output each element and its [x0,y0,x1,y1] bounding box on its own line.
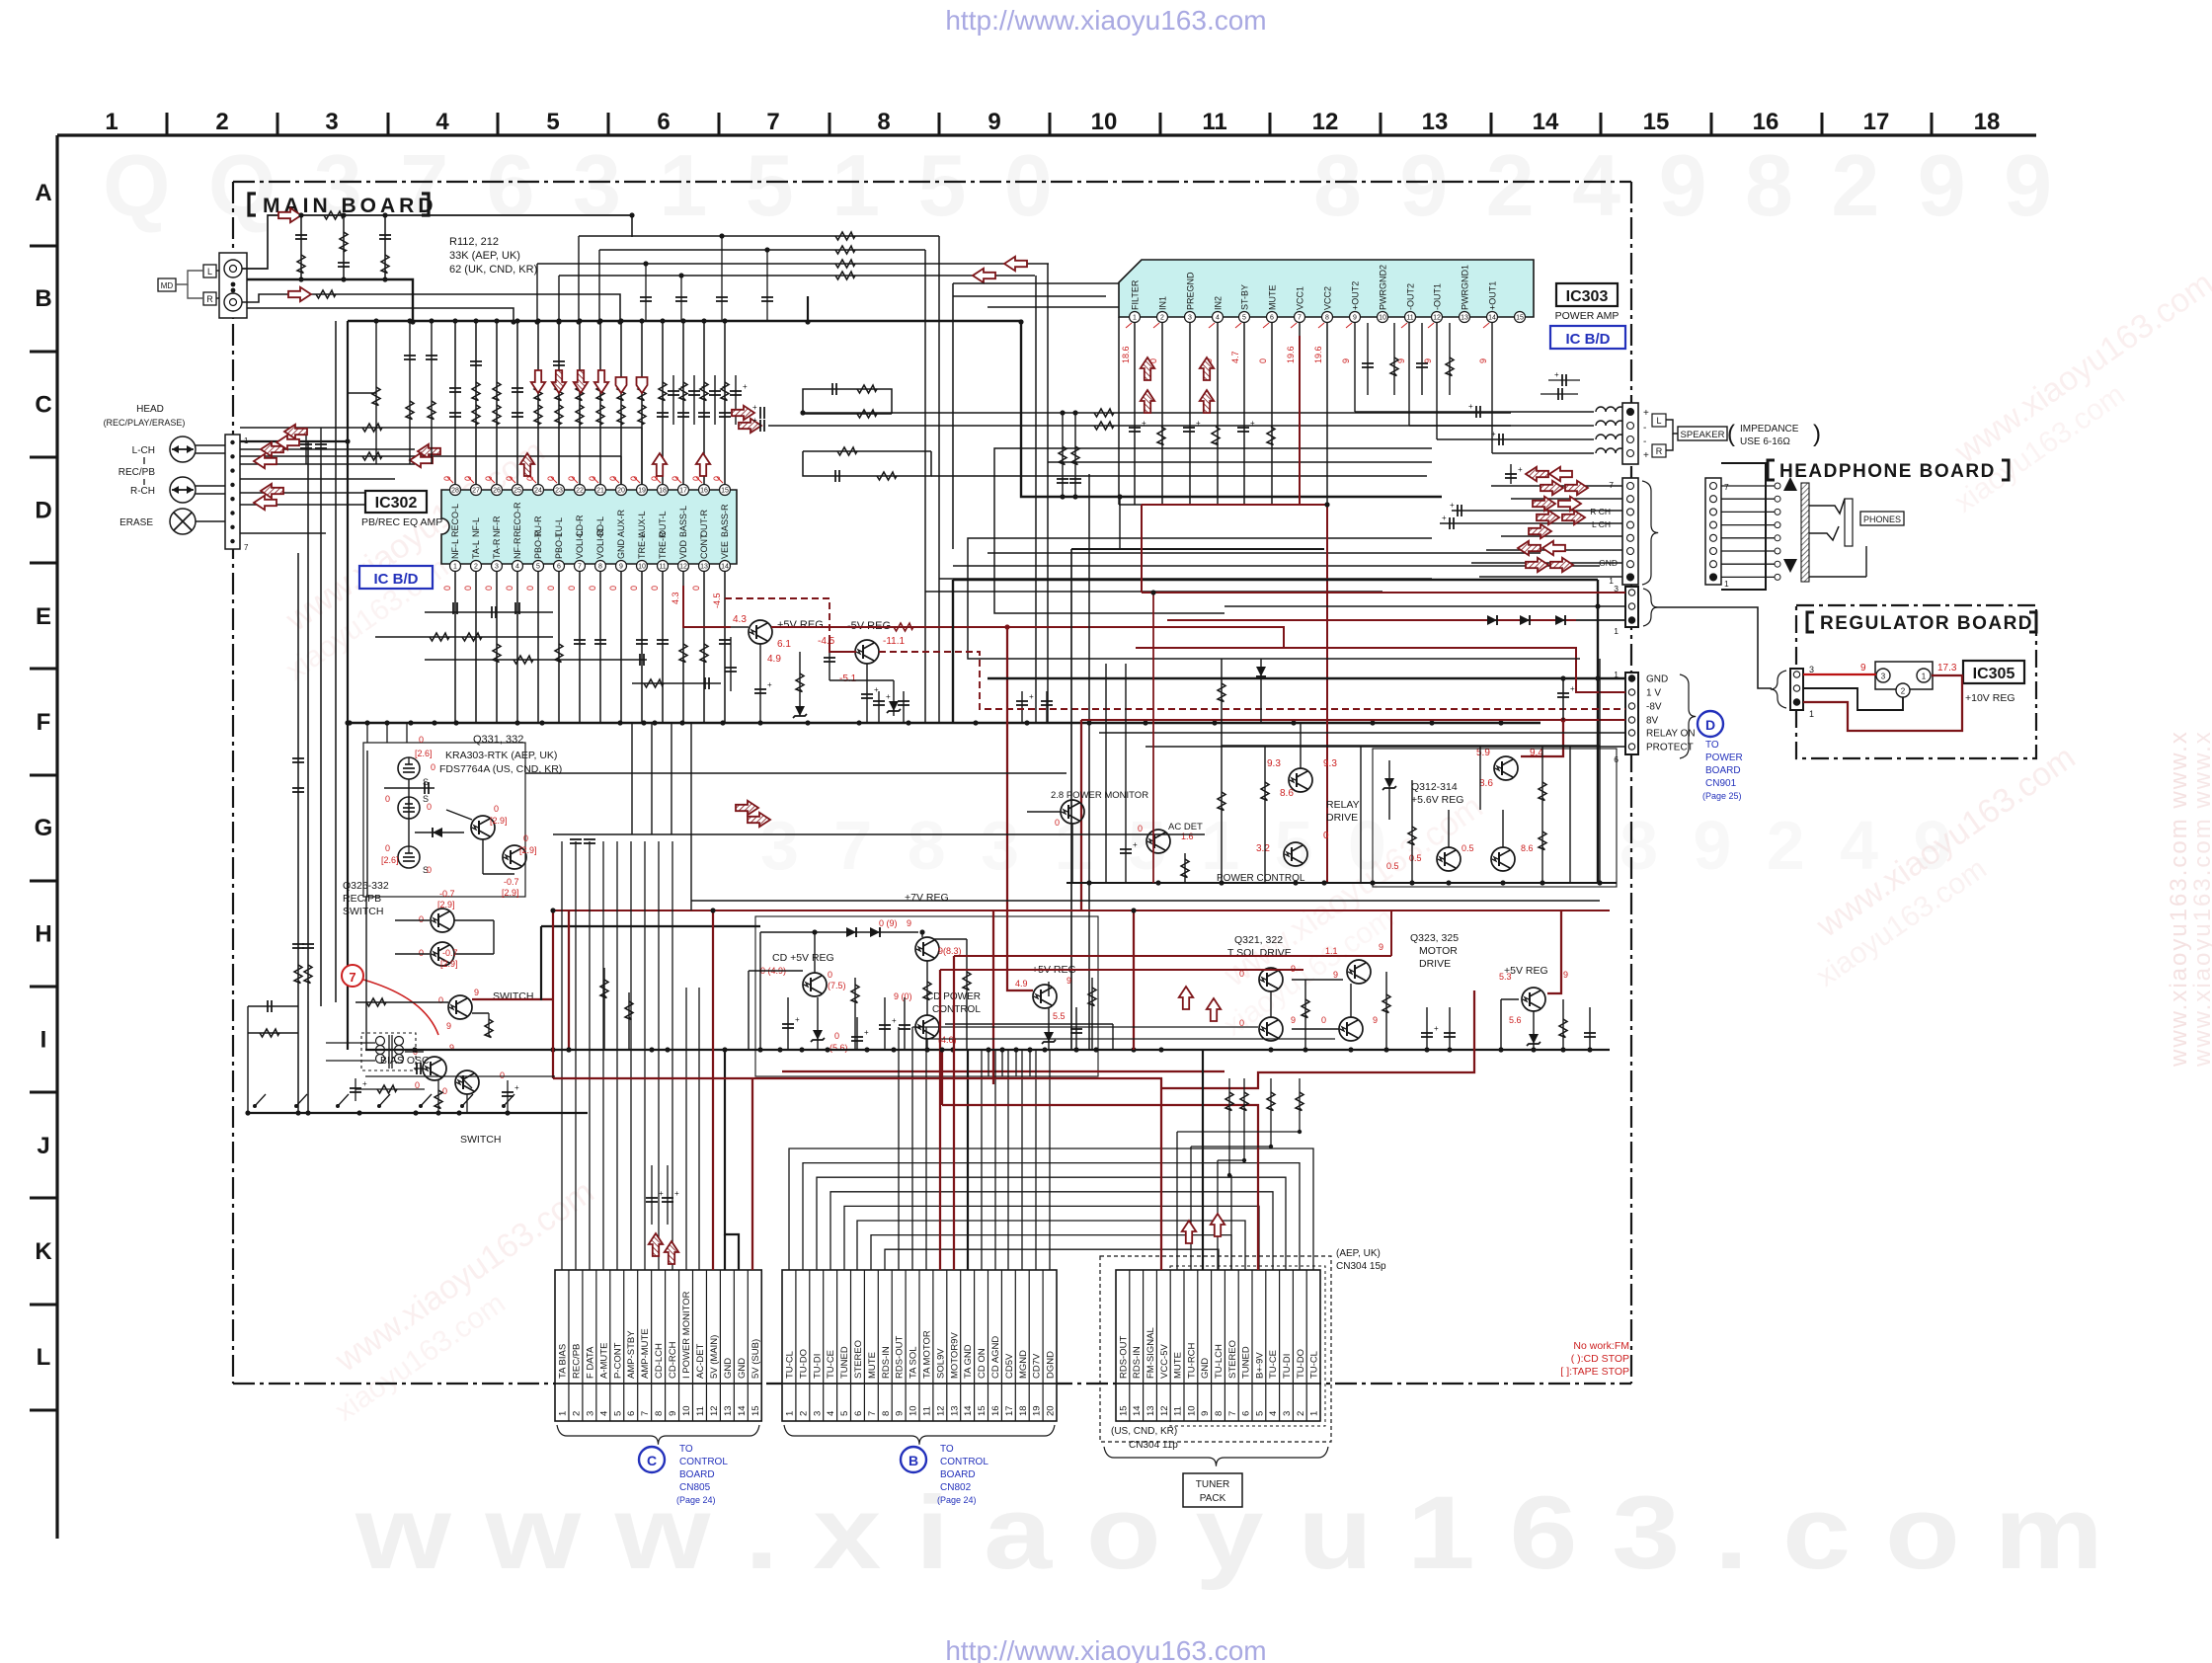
svg-text:C: C [647,1453,657,1468]
caps on c bundle [570,838,582,840]
IC303 pin 7 [1295,312,1305,323]
svg-text:E: E [36,603,51,630]
svg-text:+5V REG: +5V REG [777,619,824,631]
cd 5v transistor [803,973,827,996]
IC302 pin 22 [575,485,586,496]
wires q331 cluster [366,751,368,897]
svg-text:13: 13 [949,1405,960,1416]
caps row plus above pins 18-15 [668,390,679,392]
headphone board inner wires [1721,485,1777,487]
IC302 pin 20 [616,485,627,496]
svg-text:8: 8 [598,564,602,571]
svg-text:IN1: IN1 [1158,296,1168,310]
IC302 pin 1 [450,561,461,572]
svg-text:TU-DI: TU-DI [1282,1354,1293,1379]
svg-text:P-CONT: P-CONT [612,1342,623,1379]
vertical 1103 [1088,549,1090,1050]
svg-text:-4.5: -4.5 [712,593,722,608]
maroon b+9v to tuner [942,1105,1258,1270]
red curve from 7 [363,980,438,1035]
caps on left verticals [292,757,304,759]
pc pair transistors [1437,847,1461,871]
svg-text:9: 9 [1341,358,1351,363]
thick GND into C [725,1050,739,1270]
svg-text:9.3: 9.3 [1267,758,1281,769]
svg-text:4: 4 [1216,315,1220,322]
watermark pink diagonals [255,433,574,687]
svg-text:+OUT2: +OUT2 [1351,281,1361,310]
svg-text:VCC2: VCC2 [1323,286,1333,310]
headphone feed lines [1452,510,1622,512]
svg-text:[2.6]: [2.6] [381,855,399,865]
up arrows above pins 18 16 [653,453,667,476]
svg-text:KRA303-RTK (AEP, UK): KRA303-RTK (AEP, UK) [445,750,557,761]
6pin brace [1680,674,1696,758]
svg-text:(Page 24): (Page 24) [937,1495,977,1505]
main board dash-dot border [233,181,1631,183]
svg-text:9: 9 [1333,970,1338,980]
svg-text:RECO-R: RECO-R [513,502,522,537]
connector CN802 body [782,1270,1057,1421]
svg-text:18: 18 [1018,1405,1029,1416]
svg-text:7: 7 [867,1411,878,1416]
svg-text:I POWER MONITOR: I POWER MONITOR [681,1291,692,1379]
maroon dashed lower route [879,652,1081,709]
svg-text:+10V REG: +10V REG [1965,692,2015,704]
svg-text:TU-CE: TU-CE [1268,1350,1279,1379]
svg-text:10: 10 [681,1405,692,1416]
svg-text:IC B/D: IC B/D [1566,331,1611,348]
svg-text:7: 7 [1609,480,1614,490]
svg-text:3: 3 [1282,1411,1293,1416]
svg-text:19.6: 19.6 [1313,346,1323,363]
mosfet Q332 [398,797,420,819]
center long verticals [620,456,622,485]
svg-text:4: 4 [515,564,519,571]
svg-text:17.3: 17.3 [1937,663,1957,673]
q331 left vertical to bus [365,897,367,1050]
wire ic302 col bottom [537,572,539,723]
svg-text:L-CH: L-CH [132,445,155,456]
wire ic302 col bottom [703,572,705,723]
svg-text:AC-DET: AC-DET [695,1343,706,1379]
svg-text:19: 19 [1032,1405,1043,1416]
brace tuner [1104,1447,1328,1466]
transistor G2 [503,845,526,869]
svg-text:9.4: 9.4 [1530,748,1543,758]
svg-text:8: 8 [1214,1411,1224,1416]
IC302 pin 14 [720,561,731,572]
long bus into bundles [365,1075,555,1077]
svg-text:-OUT1: -OUT1 [1433,283,1443,310]
svg-text:H: H [35,920,51,947]
cd tr2 base resistor [923,982,931,1000]
svg-text:0: 0 [629,586,639,591]
bias transistor 2 [455,1070,479,1094]
svg-text:+: + [767,680,772,689]
up arrow near pin25 [520,453,534,476]
svg-text:12: 12 [1433,315,1441,322]
IC303 pin 6 [1267,312,1278,323]
arrow rca L [278,208,301,222]
arrows speaker feed [732,406,754,420]
svg-text:CN304 11p: CN304 11p [1129,1440,1178,1451]
svg-text:0: 0 [567,586,577,591]
caps above speaker conn [1548,379,1580,381]
arrows below IC303 [1141,357,1154,380]
svg-text:-OUT2: -OUT2 [1406,283,1416,310]
svg-text:6: 6 [626,1411,637,1416]
svg-text:+: + [1518,465,1523,474]
mosfet Q331 [398,757,420,779]
motor support [1270,991,1272,1017]
wire ic302 col top [516,321,518,484]
IC303 pin 5 [1239,312,1250,323]
svg-text:(AEP, UK): (AEP, UK) [1336,1248,1381,1259]
maroon verticals cd [992,911,994,1084]
bundle above C [561,841,563,1270]
svg-text:0: 0 [834,1031,839,1041]
svg-text:3: 3 [1881,673,1886,681]
wire ic302 col top [641,321,643,484]
bias support parts [355,1088,425,1090]
svg-text:9: 9 [1860,663,1866,673]
svg-text:9: 9 [1379,942,1383,952]
svg-text:VOLI-L: VOLI-L [575,530,585,559]
loop1 cap-res [803,389,892,414]
svg-text:DGND: DGND [1046,1351,1057,1379]
svg-text:(5.6): (5.6) [829,1043,848,1053]
svg-text:23: 23 [555,488,563,495]
F row left verticals [366,723,368,743]
resistors on speaker lines [1094,409,1114,417]
svg-text:12: 12 [1159,1405,1170,1416]
svg-text:10: 10 [638,564,646,571]
IC302 pin 15 [720,485,731,496]
svg-text:5: 5 [536,564,540,571]
svg-text:4: 4 [826,1411,836,1416]
svg-text:TA GND: TA GND [963,1344,974,1379]
svg-text:TU-CE: TU-CE [826,1350,836,1379]
svg-text:16: 16 [700,488,708,495]
switch base resistor [355,1001,448,1003]
svg-text:+: + [1434,1024,1439,1033]
svg-text:8: 8 [654,1411,665,1416]
svg-text:6: 6 [1241,1411,1252,1416]
bias cap to base [414,1068,424,1069]
IC302 pin 24 [533,485,544,496]
svg-text:-8V: -8V [1646,702,1662,713]
IC303 body [1119,260,1534,317]
svg-text:(7.5): (7.5) [828,981,846,990]
svg-text:8 9 2 4 9 8 2 9 9: 8 9 2 4 9 8 2 9 9 [1313,136,2059,234]
svg-text:+: + [874,685,879,694]
res-cap columns right [1062,413,1064,497]
svg-text:16: 16 [1753,109,1779,135]
switch transistor [448,995,472,1019]
IC302 body [441,490,737,564]
svg-text:REC/PB: REC/PB [343,893,381,905]
svg-text:A-MUTE: A-MUTE [598,1343,609,1379]
svg-text:+: + [1450,501,1455,510]
svg-text:+: + [722,382,727,391]
svg-text:12: 12 [1312,109,1339,135]
vertical x965 [952,283,954,549]
svg-text:+: + [1196,419,1201,428]
main board title [249,194,256,215]
svg-text:CD7V: CD7V [1032,1353,1043,1379]
svg-text:17: 17 [1863,109,1890,135]
svg-text:0: 0 [1138,824,1143,833]
svg-text:19: 19 [638,488,646,495]
svg-text:D: D [1705,717,1715,733]
svg-text:0: 0 [588,586,597,591]
svg-text:+: + [1643,408,1649,419]
blue D circle [1698,711,1723,737]
svg-text:20: 20 [1046,1405,1057,1416]
resistors on head lines [362,424,382,432]
wire ic302 col bottom [516,572,518,723]
bus E row [348,722,1540,725]
svg-text:14: 14 [1533,109,1559,135]
svg-text:ERASE: ERASE [119,517,153,528]
svg-text:IMPEDANCE: IMPEDANCE [1740,424,1799,435]
svg-text:REGULATOR BOARD: REGULATOR BOARD [1820,613,2033,634]
top net line C [537,263,1049,265]
svg-text:+: + [659,1189,664,1198]
long left verticals to bottom [297,553,299,1113]
svg-text:No work:FM: No work:FM [1573,1340,1629,1352]
maroon loop regulator [1803,675,1962,731]
svg-text:18.6: 18.6 [1121,346,1131,363]
svg-text:6.1: 6.1 [777,639,791,650]
svg-text:6: 6 [557,564,561,571]
svg-text:L CH: L CH [1592,519,1611,529]
B right columns [981,1050,983,1270]
regulator board border [1796,605,2036,758]
h i caps [603,968,605,1050]
svg-text:[2.9]: [2.9] [502,888,519,898]
wires head to connector [196,444,225,446]
svg-text:9: 9 [1373,1015,1378,1025]
svg-text:9: 9 [1353,315,1357,322]
svg-text:+: + [1133,840,1138,849]
IC302 pin 28 [450,485,461,496]
svg-text:CN901: CN901 [1705,778,1737,789]
3pin brace [1643,589,1657,626]
left ruler line [55,135,58,1539]
D row long horizontals [987,552,1540,554]
transistor G1 [471,816,495,839]
svg-text:PHONES: PHONES [1863,515,1901,524]
relay box outline [1373,749,1617,887]
svg-text:0: 0 [500,1070,505,1080]
svg-text:1 V: 1 V [1646,688,1661,699]
svg-text:-: - [1643,436,1646,447]
svg-text:+: + [795,1015,800,1024]
svg-text:1: 1 [1922,673,1927,681]
svg-text:(Page 24): (Page 24) [676,1495,716,1505]
thick switch bus [541,925,760,927]
short thick stub [807,296,809,322]
IC303 IC B/D blue box [1550,326,1625,349]
svg-text:VOLI-R: VOLI-R [595,528,605,559]
connector CN304 separator [1116,1383,1320,1385]
svg-text:TU-CL: TU-CL [1309,1351,1320,1379]
svg-text:TUNED: TUNED [1241,1346,1252,1379]
svg-text:0: 0 [442,1086,447,1096]
svg-text:MUTE: MUTE [1268,285,1278,311]
svg-text:( ):CD STOP: ( ):CD STOP [1571,1353,1629,1365]
top net line B [599,249,925,251]
top net component columns [300,215,302,279]
svg-text:18: 18 [1974,109,2001,135]
svg-text:9: 9 [1291,1015,1296,1025]
svg-text:VEE: VEE [720,541,730,559]
svg-text:VCC1: VCC1 [1296,286,1305,310]
res near switch tr [472,1012,489,1014]
svg-text:BOARD: BOARD [940,1469,976,1480]
svg-text:0: 0 [427,865,432,875]
svg-text:TU-RCH: TU-RCH [1186,1342,1197,1379]
protect feed [1145,746,1625,748]
svg-text:DRIVE: DRIVE [1326,812,1358,824]
R speaker box [1652,444,1666,457]
wire q331 to monitor [525,772,1066,774]
top net line A [579,235,939,237]
thick L wire to connectors [953,579,1598,581]
svg-text:7: 7 [1724,482,1729,492]
svg-text:TA-L: TA-L [471,540,481,559]
IC303 pin 9 [1350,312,1361,323]
arrow on line D [973,269,995,282]
svg-text:+: + [674,1189,679,1198]
red up arrows motor [1179,987,1193,1009]
svg-text:NF-L: NF-L [471,517,481,537]
svg-text:3.2: 3.2 [1256,843,1270,854]
cd pc transistor [915,1015,939,1039]
svg-text:HEAD: HEAD [136,404,164,415]
svg-text:CD-LCH: CD-LCH [654,1343,665,1379]
svg-text:8V: 8V [1646,716,1659,727]
svg-text:+: + [701,382,706,391]
svg-text:15: 15 [1516,315,1524,322]
svg-text:+OUT1: +OUT1 [1488,281,1498,310]
down arrows above IC302 [531,370,545,393]
svg-text:J: J [37,1133,49,1159]
transformer wires [326,1042,375,1044]
svg-text:TO: TO [940,1444,954,1455]
IC302 pin 13 [699,561,710,572]
svg-text:0: 0 [1321,1015,1326,1025]
svg-text:2.8 POWER MONITOR: 2.8 POWER MONITOR [1051,790,1148,801]
svg-text:13: 13 [1145,1405,1156,1416]
svg-text:CN802: CN802 [940,1482,972,1493]
loop2 cap-res [803,451,931,476]
svg-text:STEREO: STEREO [1227,1340,1238,1379]
diode row to 3pin [1167,619,1576,621]
IC302 pin 5 [533,561,544,572]
svg-text:25: 25 [513,488,521,495]
6pin feeds [987,677,1625,679]
connector CN304 body [1116,1270,1320,1421]
wire from 3pin to regulator [1655,607,1772,688]
svg-text:2: 2 [1296,1411,1306,1416]
svg-text:CONTROL: CONTROL [940,1457,988,1467]
svg-text:15: 15 [750,1405,761,1416]
svg-text:5.6: 5.6 [1509,1015,1522,1025]
svg-text:4.9: 4.9 [767,654,781,665]
svg-text:5.3: 5.3 [1499,972,1512,982]
relay wires [1066,882,1617,884]
svg-text:0: 0 [442,586,452,591]
maroon sol9v motor9v [939,970,941,1270]
svg-text:0: 0 [691,586,701,591]
svg-text:0: 0 [828,970,832,980]
top ruler line [57,133,2036,136]
svg-text:9: 9 [446,1021,451,1031]
wire ic302 col bottom [558,572,560,723]
svg-text:MD: MD [161,281,174,290]
regulator connector [1790,669,1803,710]
IC302 pin 17 [678,485,689,496]
maroon arrows headphone cluster [1526,467,1548,481]
transformer [361,1033,416,1070]
MD label box [158,278,176,291]
svg-text:Q321, 322: Q321, 322 [1234,934,1283,946]
svg-text:9: 9 [907,918,911,928]
svg-text:GND: GND [737,1358,748,1379]
svg-text:TUNER: TUNER [1196,1479,1229,1490]
svg-text:2: 2 [1160,315,1164,322]
svg-text:+7V REG: +7V REG [905,892,949,904]
svg-text:REC/PB: REC/PB [571,1344,582,1379]
svg-text:R: R [206,294,213,304]
svg-text:0: 0 [438,995,443,1005]
svg-text:1: 1 [557,1411,568,1416]
arrow on line C [1004,257,1027,271]
svg-text:14: 14 [1488,315,1496,322]
svg-text:BOARD: BOARD [679,1469,715,1480]
maroon 5V sub into C [751,1078,753,1270]
svg-text:0: 0 [385,843,390,853]
svg-text:TU-DO: TU-DO [1296,1349,1306,1379]
svg-text:6: 6 [853,1411,864,1416]
maroon switch collector [472,998,553,1000]
wire ic302 col top [579,321,581,484]
svg-text:0: 0 [419,948,424,958]
vertical feeders right of B [987,1050,989,1076]
+5v right transistor [1033,985,1057,1008]
maroon 5v reg feed [1547,911,1561,993]
svg-text:+5.6V REG: +5.6V REG [1411,794,1463,806]
svg-text:5: 5 [612,1411,623,1416]
arrow rca R [288,287,311,301]
wire ic302 col top [558,321,560,484]
svg-text:8.6: 8.6 [1521,843,1534,853]
IC302 pin 26 [492,485,503,496]
svg-text:3: 3 [1809,665,1814,674]
svg-text:NF-R: NF-R [513,537,522,559]
speaker wires to boxes [1666,420,1678,434]
wire ic303 col [1134,323,1136,505]
svg-text:12: 12 [709,1405,720,1416]
IC303 pin 2 [1157,312,1168,323]
triangle up [1783,477,1797,491]
svg-text:[2.9]: [2.9] [440,959,458,969]
switch contacts on bus [253,1104,257,1108]
relay drive transistor [1289,768,1312,792]
